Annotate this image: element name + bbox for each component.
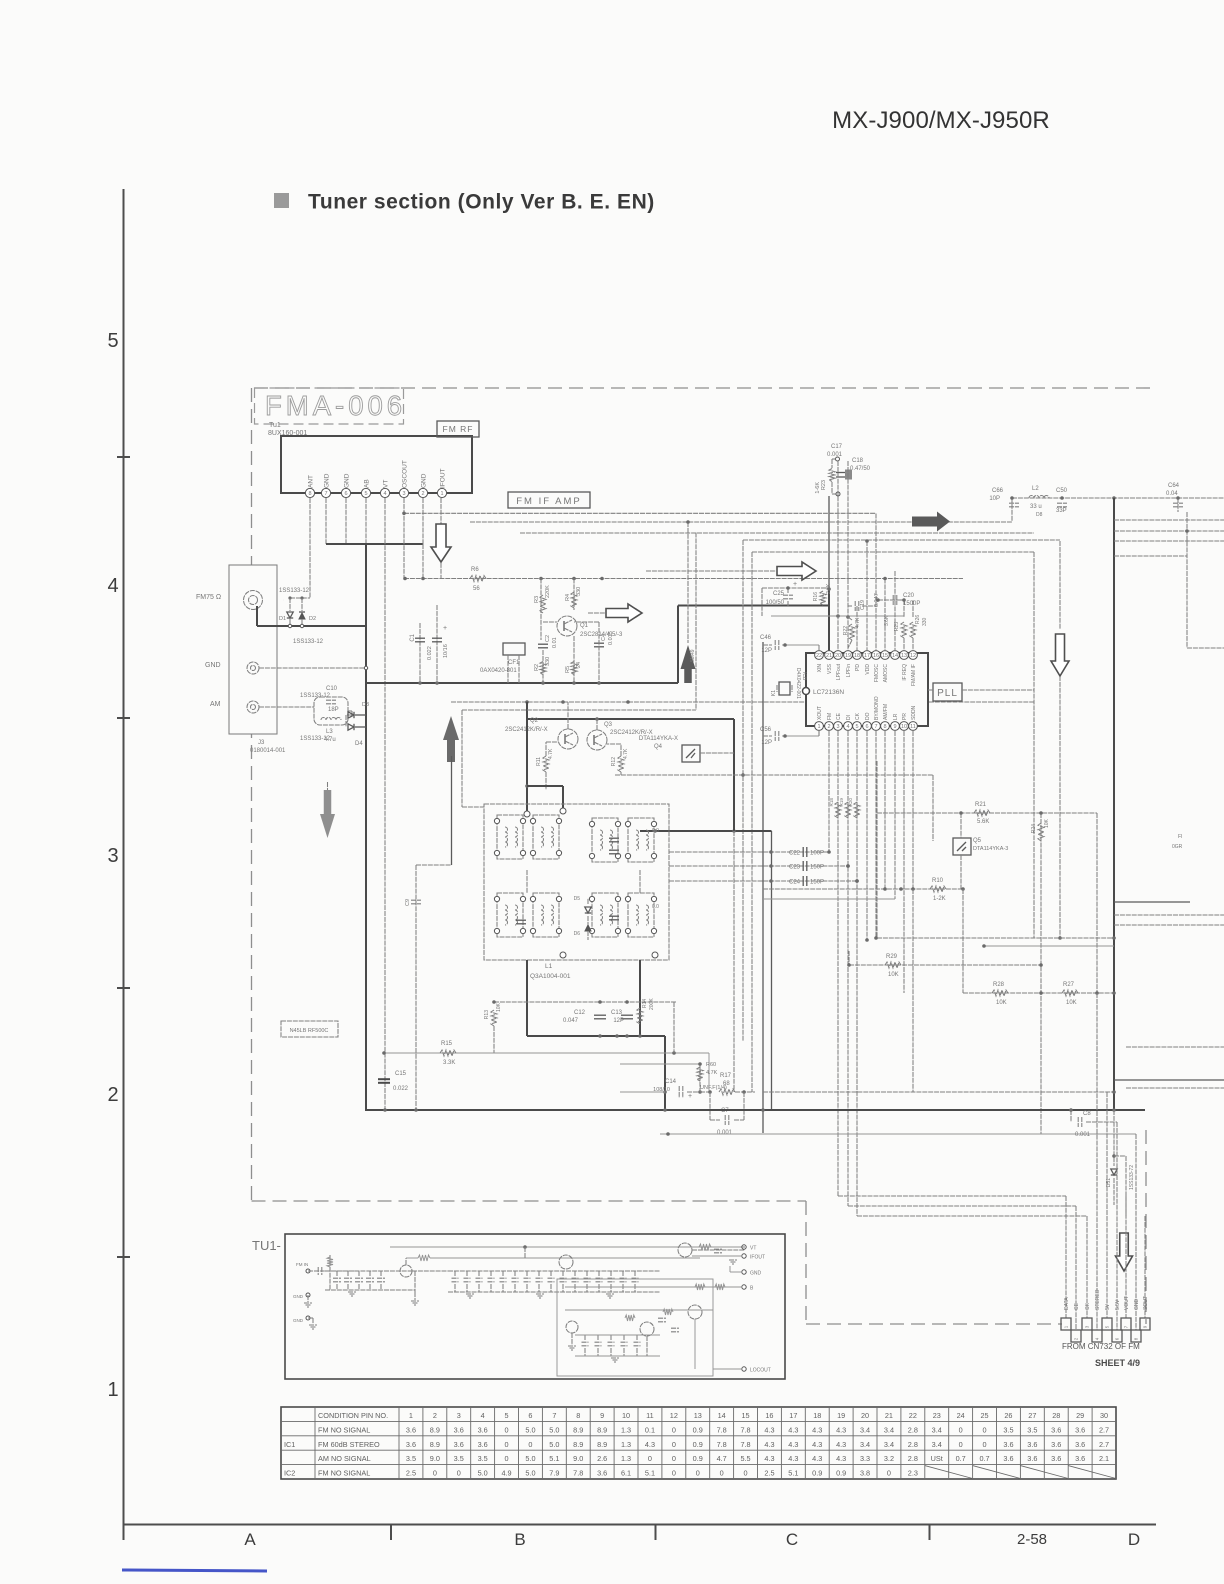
svg-text:1: 1 [409, 1411, 413, 1420]
svg-text:IF REQ: IF REQ [902, 664, 908, 681]
svg-text:C18: C18 [852, 458, 864, 464]
svg-text:GND: GND [1134, 1299, 1140, 1311]
svg-text:CE: CE [836, 712, 842, 720]
svg-text:1.3: 1.3 [621, 1454, 631, 1463]
svg-text:CF1: CF1 [508, 660, 520, 666]
svg-text:20: 20 [861, 1411, 869, 1420]
svg-text:21: 21 [826, 653, 832, 659]
svg-text:2.5: 2.5 [406, 1469, 416, 1478]
svg-text:USt: USt [931, 1454, 943, 1463]
svg-text:CE: CE [1074, 1302, 1080, 1310]
svg-text:FM RF: FM RF [443, 424, 474, 434]
svg-text:16: 16 [873, 653, 879, 659]
svg-text:100/50: 100/50 [766, 600, 785, 606]
svg-text:0.022: 0.022 [393, 1086, 409, 1092]
svg-text:1500P: 1500P [903, 601, 920, 607]
svg-text:0: 0 [983, 1425, 987, 1434]
svg-text:0.7: 0.7 [979, 1454, 989, 1463]
svg-text:1SS133-12: 1SS133-12 [279, 588, 310, 594]
svg-text:56: 56 [473, 586, 480, 592]
svg-text:AM: AM [210, 701, 221, 708]
svg-text:LPFout: LPFout [836, 663, 842, 680]
svg-text:0.001: 0.001 [717, 1130, 733, 1136]
svg-text:0AX0420-801: 0AX0420-801 [480, 668, 517, 674]
svg-text:VDD: VDD [865, 664, 871, 675]
svg-text:R4: R4 [565, 594, 571, 601]
svg-text:11: 11 [646, 1411, 654, 1420]
svg-text:FMOSC: FMOSC [874, 664, 880, 682]
svg-text:5.0: 5.0 [525, 1454, 535, 1463]
svg-text:0: 0 [457, 1469, 461, 1478]
svg-text:FM IF AMP: FM IF AMP [516, 496, 582, 507]
svg-text:GND: GND [324, 473, 331, 488]
svg-text:2.8: 2.8 [908, 1454, 918, 1463]
svg-text:4.3: 4.3 [812, 1425, 822, 1434]
svg-text:0.015: 0.015 [608, 631, 614, 645]
svg-text:C66: C66 [992, 488, 1004, 494]
svg-text:D8: D8 [1036, 512, 1043, 518]
svg-text:SHEET 4/9: SHEET 4/9 [1095, 1358, 1140, 1368]
svg-text:18: 18 [854, 653, 860, 659]
svg-text:DATA: DATA [1064, 1297, 1070, 1310]
svg-text:PD: PD [855, 664, 861, 671]
svg-text:8.9: 8.9 [573, 1440, 583, 1449]
svg-text:18P: 18P [328, 707, 339, 713]
svg-text:6: 6 [344, 491, 347, 497]
svg-text:FM IN: FM IN [296, 1262, 308, 1267]
svg-text:13: 13 [694, 1411, 702, 1420]
svg-text:8: 8 [883, 724, 886, 730]
svg-text:0GR: 0GR [1172, 844, 1183, 850]
svg-text:0: 0 [672, 1425, 676, 1434]
svg-text:30: 30 [1100, 1411, 1108, 1420]
svg-text:23: 23 [933, 1411, 941, 1420]
svg-text:FM NO SIGNAL: FM NO SIGNAL [318, 1425, 370, 1434]
svg-text:3.6: 3.6 [1051, 1440, 1061, 1449]
svg-text:5.1: 5.1 [549, 1454, 559, 1463]
svg-text:1SS133-12: 1SS133-12 [293, 639, 324, 645]
svg-text:R14: R14 [642, 999, 648, 1008]
svg-text:FM75 Ω: FM75 Ω [196, 594, 221, 601]
svg-text:ICB: ICB [801, 672, 807, 681]
svg-text:5.0: 5.0 [525, 1425, 535, 1434]
svg-text:108/10: 108/10 [653, 1087, 670, 1093]
svg-text:Tu1: Tu1 [269, 422, 281, 429]
svg-text:8UX160-001: 8UX160-001 [268, 430, 307, 437]
svg-text:DTA114YKA-X: DTA114YKA-X [639, 736, 678, 742]
svg-text:C14: C14 [665, 1079, 677, 1085]
svg-text:19: 19 [837, 1411, 845, 1420]
svg-text:4.3: 4.3 [764, 1440, 774, 1449]
svg-text:CONDITION PIN NO.: CONDITION PIN NO. [318, 1411, 388, 1420]
svg-text:FM 60dB STEREO: FM 60dB STEREO [318, 1440, 380, 1449]
svg-text:0.047: 0.047 [563, 1018, 579, 1024]
svg-text:0: 0 [887, 1469, 891, 1478]
svg-text:8.9: 8.9 [430, 1440, 440, 1449]
svg-text:4.3: 4.3 [645, 1440, 655, 1449]
svg-text:3.4: 3.4 [860, 1425, 870, 1434]
svg-text:C9: C9 [405, 899, 411, 906]
svg-text:CK: CK [1085, 1302, 1091, 1310]
svg-text:4.3: 4.3 [812, 1440, 822, 1449]
svg-text:10K: 10K [1066, 1000, 1077, 1006]
svg-text:0: 0 [672, 1454, 676, 1463]
svg-text:D6: D6 [574, 931, 581, 937]
svg-text:0: 0 [672, 1440, 676, 1449]
svg-text:+: + [443, 625, 447, 632]
svg-text:Q4: Q4 [654, 744, 663, 750]
svg-text:2.8: 2.8 [908, 1425, 918, 1434]
svg-text:4: 4 [481, 1411, 485, 1420]
svg-text:4.3: 4.3 [836, 1425, 846, 1434]
svg-text:AM NO SIGNAL: AM NO SIGNAL [318, 1454, 371, 1463]
svg-text:5.0: 5.0 [478, 1469, 488, 1478]
svg-text:4: 4 [846, 724, 849, 730]
svg-text:3.6: 3.6 [1051, 1425, 1061, 1434]
svg-text:4.7K: 4.7K [623, 748, 629, 759]
svg-text:2.7: 2.7 [1099, 1425, 1109, 1434]
svg-text:28: 28 [1052, 1411, 1060, 1420]
svg-text:10/16: 10/16 [443, 644, 449, 658]
svg-text:7.9: 7.9 [549, 1469, 559, 1478]
svg-text:C15: C15 [395, 1071, 407, 1077]
svg-text:5V: 5V [1105, 1303, 1111, 1310]
svg-text:L3: L3 [326, 729, 333, 735]
svg-text:R16: R16 [813, 592, 819, 601]
svg-text:R12: R12 [611, 757, 617, 766]
svg-text:D: D [1128, 1530, 1140, 1549]
svg-text:R21: R21 [975, 802, 987, 808]
svg-text:0: 0 [433, 1469, 437, 1478]
svg-text:VT: VT [750, 1246, 756, 1252]
svg-text:R15: R15 [441, 1041, 453, 1047]
svg-text:GND: GND [344, 473, 351, 488]
svg-text:15: 15 [882, 653, 888, 659]
svg-text:GND: GND [293, 1294, 304, 1299]
svg-text:R18: R18 [829, 798, 834, 807]
svg-text:Q3A1004-001: Q3A1004-001 [530, 973, 571, 980]
svg-text:MX-J900/MX-J950R: MX-J900/MX-J950R [832, 107, 1050, 134]
svg-text:0.0: 0.0 [652, 904, 659, 910]
svg-text:OSCOUT: OSCOUT [402, 460, 409, 488]
svg-text:7.8: 7.8 [740, 1425, 750, 1434]
svg-text:12P: 12P [613, 1018, 624, 1024]
svg-text:0: 0 [959, 1440, 963, 1449]
svg-text:15: 15 [741, 1411, 749, 1420]
svg-text:8.9: 8.9 [573, 1425, 583, 1434]
svg-text:0: 0 [505, 1440, 509, 1449]
svg-text:0.01: 0.01 [552, 637, 558, 648]
svg-text:17: 17 [864, 653, 870, 659]
svg-text:7.8: 7.8 [740, 1440, 750, 1449]
svg-text:2: 2 [107, 1084, 118, 1106]
svg-text:24: 24 [576, 662, 582, 668]
svg-text:3.4: 3.4 [884, 1440, 894, 1449]
svg-text:AMOSC: AMOSC [883, 664, 889, 683]
svg-text:12: 12 [910, 653, 916, 659]
svg-text:FM NO SIGNAL: FM NO SIGNAL [318, 1469, 370, 1478]
svg-text:33 u: 33 u [1030, 504, 1042, 510]
svg-text:C10: C10 [326, 686, 338, 692]
svg-text:3: 3 [836, 724, 839, 730]
svg-text:C46: C46 [760, 635, 772, 641]
svg-text:Q3: Q3 [604, 722, 613, 728]
svg-text:3.6: 3.6 [1075, 1440, 1085, 1449]
svg-text:10K: 10K [996, 1000, 1007, 1006]
svg-text:C17: C17 [831, 444, 843, 450]
svg-text:29: 29 [1076, 1411, 1084, 1420]
svg-text:IC2: IC2 [284, 1469, 295, 1478]
svg-text:200K: 200K [649, 998, 655, 1010]
svg-text:C24: C24 [789, 880, 801, 886]
svg-text:3.5: 3.5 [478, 1454, 488, 1463]
svg-text:3.3K: 3.3K [443, 1060, 455, 1066]
svg-text:IFOUT: IFOUT [440, 468, 447, 488]
svg-text:2.6: 2.6 [597, 1454, 607, 1463]
svg-text:0.9: 0.9 [693, 1454, 703, 1463]
svg-text:1-2K: 1-2K [933, 896, 946, 902]
svg-text:3.6: 3.6 [454, 1440, 464, 1449]
svg-text:5.0: 5.0 [525, 1469, 535, 1478]
svg-text:1SS133-72: 1SS133-72 [1129, 1165, 1135, 1190]
svg-text:3.5: 3.5 [1003, 1425, 1013, 1434]
svg-text:27: 27 [1028, 1411, 1036, 1420]
svg-text:4: 4 [107, 575, 118, 597]
svg-text:3.6: 3.6 [454, 1425, 464, 1434]
svg-text:PLL: PLL [937, 688, 958, 699]
svg-text:7.8: 7.8 [717, 1425, 727, 1434]
svg-text:1SS133-12: 1SS133-12 [300, 693, 331, 699]
svg-text:GND: GND [293, 1318, 304, 1323]
svg-text:5: 5 [107, 330, 118, 352]
svg-text:LPFin: LPFin [846, 664, 852, 677]
svg-text:3.6: 3.6 [1003, 1440, 1013, 1449]
svg-text:0.04: 0.04 [1166, 491, 1178, 497]
svg-text:R10: R10 [932, 878, 944, 884]
svg-text:C20: C20 [903, 593, 915, 599]
svg-text:C4: C4 [601, 634, 607, 641]
svg-text:STEREO: STEREO [1095, 1289, 1101, 1310]
svg-text:2.1: 2.1 [1099, 1454, 1109, 1463]
svg-text:9: 9 [893, 724, 896, 730]
svg-text:4.7: 4.7 [717, 1454, 727, 1463]
svg-text:0: 0 [983, 1440, 987, 1449]
svg-text:R13: R13 [484, 1010, 490, 1019]
svg-text:5: 5 [364, 491, 367, 497]
svg-text:12: 12 [670, 1411, 678, 1420]
svg-text:4.3: 4.3 [764, 1454, 774, 1463]
svg-text:C12: C12 [574, 1010, 586, 1016]
svg-text:0: 0 [505, 1425, 509, 1434]
svg-text:FM: FM [827, 713, 833, 720]
svg-text:5.1: 5.1 [788, 1469, 798, 1478]
svg-text:GND: GND [750, 1271, 762, 1277]
svg-text:2.5: 2.5 [764, 1469, 774, 1478]
svg-text:6: 6 [865, 724, 868, 730]
svg-text:6: 6 [528, 1411, 532, 1420]
svg-text:R5: R5 [565, 666, 571, 673]
svg-text:R26: R26 [915, 615, 921, 624]
svg-text:150P: 150P [810, 880, 824, 886]
svg-text:K1: K1 [771, 690, 777, 696]
svg-text:4.3: 4.3 [836, 1440, 846, 1449]
svg-text:3.5: 3.5 [1027, 1425, 1037, 1434]
svg-text:3.6: 3.6 [1003, 1454, 1013, 1463]
svg-text:UNF.F(1/4): UNF.F(1/4) [700, 1085, 727, 1091]
svg-text:33P: 33P [1056, 508, 1067, 514]
svg-text:330: 330 [545, 657, 551, 666]
svg-text:D4: D4 [355, 741, 363, 747]
svg-text:C22: C22 [789, 851, 801, 857]
svg-text:7.8: 7.8 [573, 1469, 583, 1478]
svg-text:5.5: 5.5 [740, 1454, 750, 1463]
svg-text:8: 8 [308, 491, 311, 497]
svg-text:LC72136N: LC72136N [813, 689, 844, 696]
svg-text:L2: L2 [1032, 486, 1039, 492]
svg-text:0.9: 0.9 [812, 1469, 822, 1478]
svg-text:9: 9 [600, 1411, 604, 1420]
svg-text:3.6: 3.6 [1051, 1454, 1061, 1463]
svg-text:CK: CK [855, 712, 861, 720]
svg-text:C56: C56 [760, 727, 772, 733]
svg-text:1: 1 [107, 1379, 118, 1401]
svg-text:100P: 100P [810, 851, 824, 857]
svg-text:3.5: 3.5 [406, 1454, 416, 1463]
svg-text:10K: 10K [496, 1002, 502, 1012]
svg-text:0.7: 0.7 [956, 1454, 966, 1463]
svg-text:330: 330 [922, 617, 928, 626]
svg-text:1.3: 1.3 [621, 1425, 631, 1434]
svg-text:R2: R2 [534, 664, 540, 671]
svg-text:+: + [793, 581, 797, 588]
svg-text:0: 0 [696, 1469, 700, 1478]
svg-text:0: 0 [505, 1454, 509, 1463]
svg-text:C64: C64 [1168, 483, 1180, 489]
svg-text:0180014-001: 0180014-001 [250, 748, 286, 754]
svg-text:3: 3 [402, 491, 405, 497]
svg-text:IC1: IC1 [284, 1440, 295, 1449]
svg-text:14: 14 [892, 653, 898, 659]
svg-text:3.4: 3.4 [932, 1425, 942, 1434]
svg-text:J3: J3 [258, 740, 265, 746]
svg-text:3.4: 3.4 [860, 1440, 870, 1449]
svg-text:8.9: 8.9 [597, 1440, 607, 1449]
svg-text:3.6: 3.6 [406, 1425, 416, 1434]
svg-text:3.3: 3.3 [860, 1454, 870, 1463]
svg-text:R27: R27 [1063, 982, 1075, 988]
svg-text:4.3: 4.3 [764, 1425, 774, 1434]
svg-text:19: 19 [845, 653, 851, 659]
svg-text:LR: LR [893, 713, 899, 720]
svg-text:3.6: 3.6 [1027, 1454, 1037, 1463]
svg-text:10P: 10P [989, 496, 1000, 502]
svg-text:0.9: 0.9 [693, 1425, 703, 1434]
svg-text:3.6: 3.6 [478, 1425, 488, 1434]
svg-text:5.0: 5.0 [549, 1425, 559, 1434]
svg-text:2: 2 [433, 1411, 437, 1420]
svg-text:0.0: 0.0 [652, 828, 659, 834]
svg-text:VT: VT [383, 480, 390, 488]
svg-text:GND: GND [421, 473, 428, 488]
svg-text:6.1: 6.1 [621, 1469, 631, 1478]
svg-text:3.4: 3.4 [884, 1425, 894, 1434]
svg-text:4.3: 4.3 [836, 1454, 846, 1463]
svg-text:22: 22 [909, 1411, 917, 1420]
svg-text:2.3: 2.3 [908, 1469, 918, 1478]
svg-text:2: 2 [827, 724, 830, 730]
svg-text:FM/AM IF: FM/AM IF [911, 664, 917, 686]
svg-text:D2: D2 [309, 616, 316, 622]
svg-text:0.47/50: 0.47/50 [850, 466, 871, 472]
svg-text:0: 0 [648, 1454, 652, 1463]
svg-text:4.3: 4.3 [812, 1454, 822, 1463]
svg-text:VSS: VSS [827, 663, 833, 674]
svg-text:8.9: 8.9 [430, 1425, 440, 1434]
svg-text:25: 25 [980, 1411, 988, 1420]
svg-text:C23: C23 [789, 865, 801, 871]
svg-text:R17: R17 [720, 1073, 732, 1079]
svg-text:C19: C19 [860, 600, 866, 610]
svg-text:A: A [244, 1530, 256, 1549]
svg-text:150P: 150P [810, 865, 824, 871]
svg-text:TU1-: TU1- [252, 1238, 281, 1253]
svg-text:3: 3 [457, 1411, 461, 1420]
svg-text:4.9: 4.9 [501, 1469, 511, 1478]
svg-text:4.3: 4.3 [788, 1454, 798, 1463]
svg-text:3.6: 3.6 [1075, 1454, 1085, 1463]
svg-text:R11: R11 [536, 757, 542, 766]
svg-text:D1: D1 [279, 616, 286, 622]
svg-text:R23: R23 [821, 480, 827, 490]
svg-text:BY/MONO: BY/MONO [874, 696, 880, 720]
svg-text:5.0: 5.0 [549, 1440, 559, 1449]
svg-text:R20: R20 [848, 798, 853, 807]
svg-text:5.1: 5.1 [645, 1469, 655, 1478]
svg-text:14: 14 [718, 1411, 726, 1420]
svg-text:L1: L1 [545, 963, 553, 970]
svg-text:AM/FM: AM/FM [883, 704, 889, 720]
svg-text:R3: R3 [534, 596, 540, 603]
svg-text:1: 1 [440, 491, 443, 497]
svg-text:4: 4 [383, 491, 386, 497]
svg-text:C8: C8 [1083, 1111, 1091, 1117]
svg-text:0: 0 [528, 1440, 532, 1449]
svg-text:3.6: 3.6 [1027, 1440, 1037, 1449]
svg-text:3.4: 3.4 [932, 1440, 942, 1449]
svg-text:ANT: ANT [308, 475, 315, 488]
svg-text:C50: C50 [1056, 488, 1068, 494]
svg-text:0.001: 0.001 [827, 452, 843, 458]
svg-text:7: 7 [324, 491, 327, 497]
svg-text:8: 8 [576, 1411, 580, 1420]
svg-text:2.8: 2.8 [908, 1440, 918, 1449]
svg-text:13: 13 [901, 653, 907, 659]
svg-text:R29: R29 [886, 954, 898, 960]
svg-text:10: 10 [622, 1411, 630, 1420]
svg-text:3.6: 3.6 [406, 1440, 416, 1449]
svg-text:10K: 10K [1044, 818, 1050, 828]
svg-text:IFOUT: IFOUT [750, 1255, 765, 1261]
svg-text:1-6K: 1-6K [815, 482, 821, 494]
svg-text:AB: AB [364, 479, 371, 488]
svg-text:Q5: Q5 [973, 838, 982, 844]
svg-text:SDDN: SDDN [911, 705, 917, 720]
svg-text:D5: D5 [574, 896, 581, 902]
svg-text:24: 24 [957, 1411, 965, 1420]
svg-text:3.2: 3.2 [884, 1454, 894, 1463]
svg-text:7: 7 [874, 724, 877, 730]
svg-text:2: 2 [421, 491, 424, 497]
